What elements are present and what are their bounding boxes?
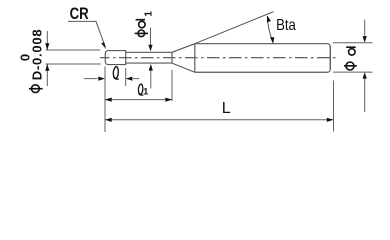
dim l1 arrowheads bbox=[105, 98, 112, 102]
label phi d: d bbox=[346, 47, 356, 55]
label l bbox=[113, 67, 119, 80]
dim phi d1 top arrow bbox=[150, 28, 152, 47]
centerline bbox=[100, 57, 337, 59]
shank (dia d) bbox=[195, 44, 330, 73]
dim l line right arrow (outside) bbox=[133, 78, 139, 80]
label phi d: phi symbol bbox=[344, 62, 357, 70]
Bta arc top arrowhead bbox=[267, 15, 271, 22]
dim L arrowheads bbox=[105, 118, 112, 122]
dim phi d1 label: phi symbol bbox=[135, 30, 148, 37]
dim phiD dimension line bbox=[46, 31, 48, 86]
svg-text:L: L bbox=[222, 100, 231, 117]
neck (dia d1) bbox=[126, 52, 172, 63]
Bta angle extension line bbox=[195, 12, 274, 44]
dim phiD arrowheads bbox=[45, 43, 49, 50]
dim l right extension line bbox=[125, 68, 127, 86]
svg-text:1: 1 bbox=[144, 11, 155, 17]
dim l1 right extension line bbox=[171, 70, 173, 101]
label l1 bbox=[138, 84, 143, 95]
svg-text:1: 1 bbox=[143, 87, 148, 97]
dim phi d dimension line bbox=[364, 20, 366, 113]
dim l1 dimension line bbox=[105, 99, 172, 101]
Bta angle arc bbox=[267, 16, 273, 42]
dim phi d extension lines bbox=[333, 43, 373, 72]
dim phi d1 label: d and subscript bbox=[136, 20, 146, 28]
dim L right extension line bbox=[333, 81, 335, 132]
dim l left extension line (shared with l1, L) bbox=[104, 67, 106, 133]
tip (cutting head, dia D) bbox=[105, 51, 125, 65]
Bta arc bottom arrowhead bbox=[270, 37, 274, 44]
svg-text:CR: CR bbox=[70, 5, 89, 24]
shank end face line bbox=[329, 47, 331, 70]
dim phi d arrowheads bbox=[363, 36, 367, 43]
taper bbox=[172, 44, 195, 73]
dim phiD extension lines bbox=[46, 50, 101, 64]
label phiD: phi symbol bbox=[29, 85, 43, 93]
CR leader bbox=[68, 21, 105, 46]
dim phi d1 bottom arrow bbox=[150, 69, 152, 89]
CR leader arrowhead bbox=[101, 42, 106, 49]
svg-text:Bta: Bta bbox=[276, 17, 296, 34]
dim l line left arrow (outside) bbox=[84, 78, 98, 80]
dim L dimension line bbox=[105, 119, 334, 121]
svg-text:0: 0 bbox=[18, 54, 33, 61]
